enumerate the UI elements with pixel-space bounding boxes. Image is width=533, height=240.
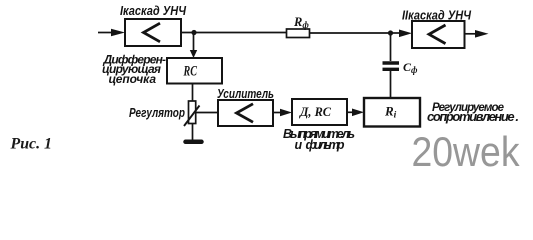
svg-text:Rф: Rф	[293, 15, 309, 30]
svg-text:RC: RC	[183, 64, 197, 80]
svg-text:Iкаскад УНЧ: Iкаскад УНЧ	[120, 3, 187, 18]
wire: regulator down to ground	[192, 124, 194, 140]
wire: regulator to amplifier U3	[196, 112, 218, 114]
amplifier U3 (Усилитель)	[218, 100, 273, 126]
arrow: node B into U2	[391, 30, 413, 38]
ground	[186, 140, 202, 145]
amplifier U1 (I каскад УНЧ)	[125, 19, 181, 46]
block RC (differentiating network)	[167, 58, 222, 84]
svg-text:и: и	[295, 138, 303, 152]
svg-text:сопротивление .: сопротивление .	[427, 109, 519, 124]
svg-text:IIкаскад УНЧ: IIкаскад УНЧ	[402, 8, 472, 23]
block Д,RC (rectifier and filter)	[292, 99, 347, 125]
svg-text:Ri: Ri	[384, 104, 397, 121]
svg-text:Усилитель: Усилитель	[217, 86, 274, 101]
block Ri (controlled resistance)	[364, 98, 420, 127]
wire: Rф to node B	[310, 32, 391, 34]
svg-text:Д, RC: Д, RC	[299, 104, 331, 119]
svg-text:20wek: 20wek	[412, 128, 521, 175]
node B (junction at Cф)	[388, 30, 393, 35]
node A (junction after U1)	[191, 30, 196, 35]
regulator (variable resistor)	[184, 101, 200, 126]
wire: top bus U1 to Rф	[181, 32, 287, 34]
capacitor Cф	[383, 63, 400, 69]
output arrow	[465, 30, 489, 38]
label: Выпрямитель и фильтр	[283, 127, 355, 152]
wire: junction A down to RC block	[190, 33, 197, 59]
svg-text:Cф: Cф	[403, 60, 418, 75]
label: Регулируемое сопротивление	[427, 102, 519, 124]
wire: Cф down to Ri	[390, 71, 392, 98]
arrow: U3 to Д,RC	[273, 109, 292, 117]
resistor Rф	[287, 29, 310, 38]
svg-text:Регулятор: Регулятор	[129, 106, 185, 120]
input arrow	[98, 29, 125, 37]
wire: node B down to Cф	[390, 33, 392, 61]
amplifier U2 (II каскад УНЧ)	[412, 21, 465, 48]
svg-text:Рис. 1: Рис. 1	[10, 136, 52, 153]
arrow: Д,RC to Ri	[347, 109, 364, 117]
svg-text:цепочка: цепочка	[109, 72, 157, 86]
svg-text:фильтр: фильтр	[306, 138, 345, 152]
wire: RC to regulator	[192, 84, 194, 102]
label: Дифференцирующая цепочка	[102, 53, 166, 86]
